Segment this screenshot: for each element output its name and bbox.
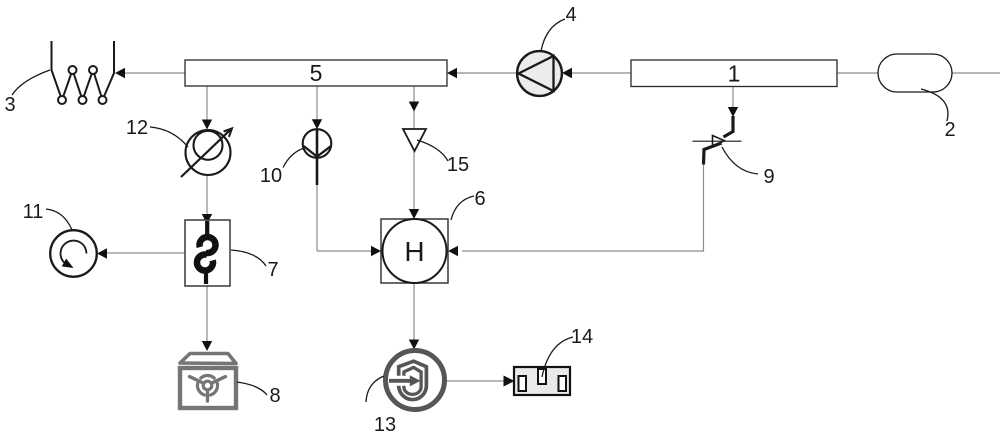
svg-text:7: 7 bbox=[267, 259, 278, 281]
svg-text:9: 9 bbox=[763, 166, 774, 188]
svg-text:10: 10 bbox=[260, 165, 282, 187]
svg-text:15: 15 bbox=[447, 154, 469, 176]
svg-text:5: 5 bbox=[310, 60, 323, 86]
svg-text:1: 1 bbox=[728, 61, 741, 87]
svg-text:12: 12 bbox=[126, 117, 148, 139]
svg-text:4: 4 bbox=[565, 4, 576, 26]
svg-text:H: H bbox=[404, 236, 424, 267]
svg-text:3: 3 bbox=[4, 94, 15, 116]
svg-text:2: 2 bbox=[944, 119, 955, 141]
svg-text:8: 8 bbox=[269, 385, 280, 407]
svg-text:13: 13 bbox=[374, 414, 396, 435]
svg-text:6: 6 bbox=[474, 188, 485, 210]
svg-text:14: 14 bbox=[571, 326, 593, 348]
svg-text:11: 11 bbox=[23, 201, 44, 223]
